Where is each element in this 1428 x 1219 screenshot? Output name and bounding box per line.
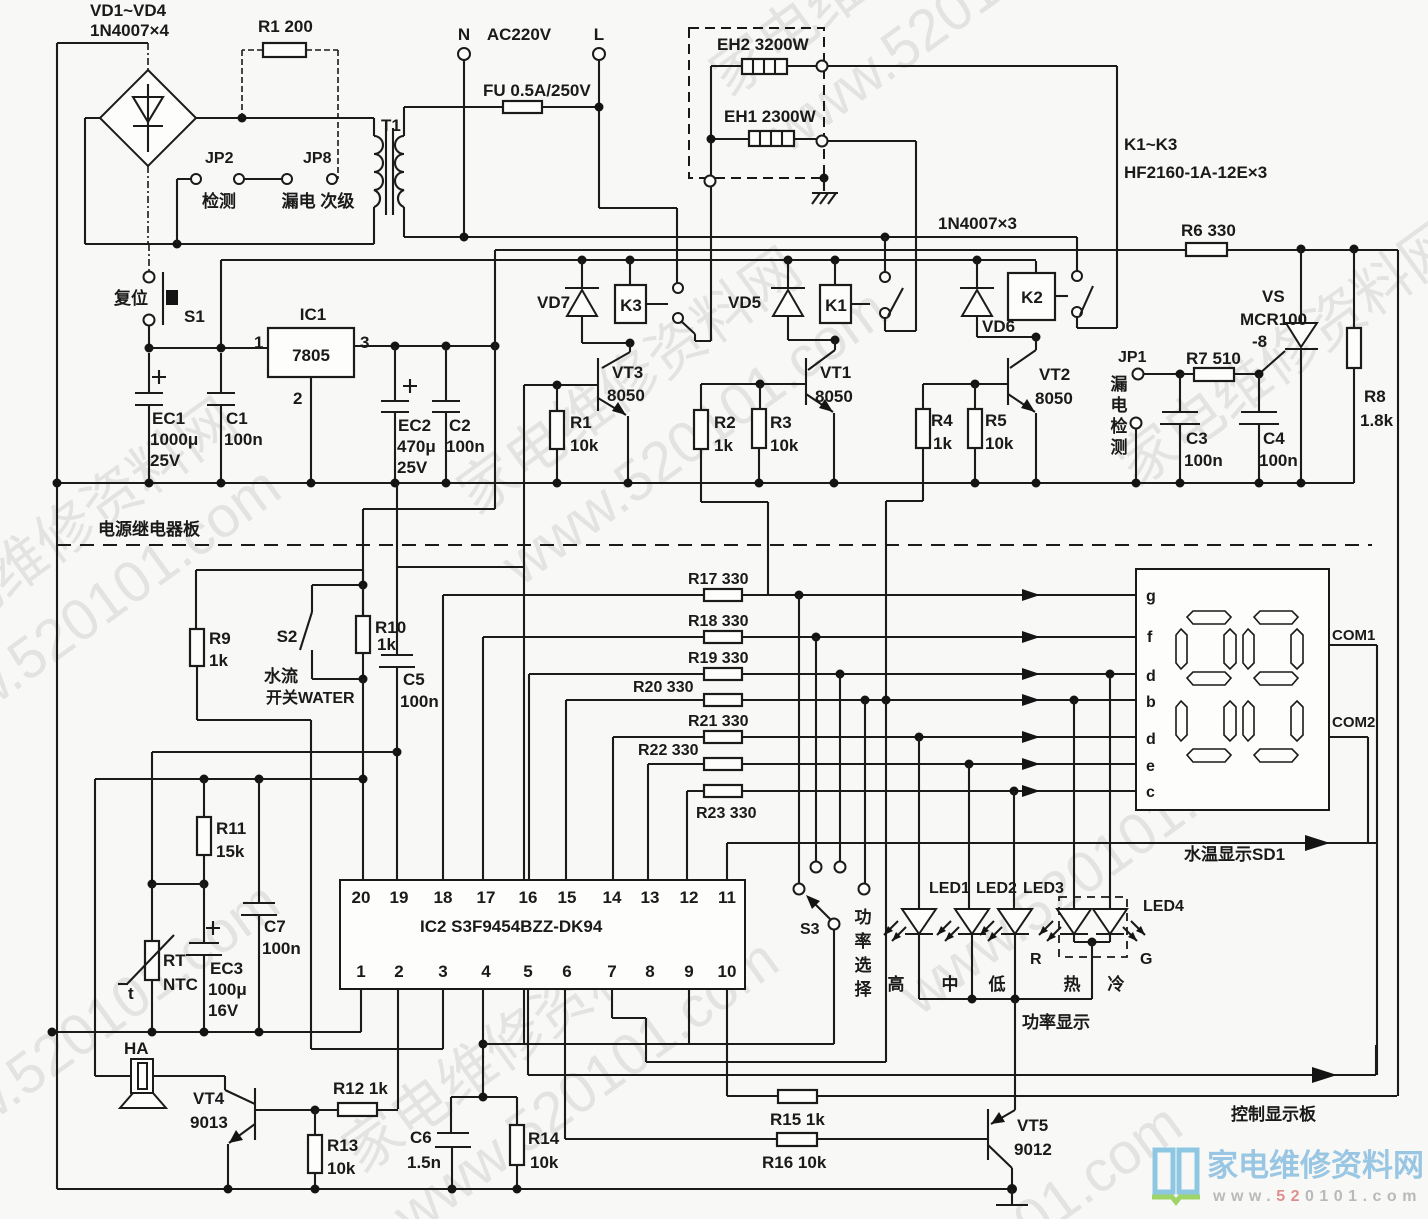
- svg-text:VD5: VD5: [728, 293, 761, 312]
- svg-text:C6: C6: [410, 1128, 432, 1147]
- node: R11 bottom / RT top junctions: [148, 880, 157, 889]
- display SD1 box: [1136, 569, 1329, 810]
- svg-text:K1: K1: [825, 296, 847, 315]
- svg-text:控制显示板: 控制显示板: [1231, 1104, 1317, 1124]
- svg-text:VD1~VD4: VD1~VD4: [90, 1, 167, 20]
- wire: pin9 to S3 select line: [688, 989, 690, 1044]
- svg-text:25V: 25V: [397, 458, 428, 477]
- transistor VT5 9012: [988, 1109, 1052, 1189]
- thyristor VS MCR100-8: [1240, 249, 1318, 483]
- svg-text:19: 19: [390, 888, 409, 907]
- svg-text:3: 3: [360, 333, 369, 352]
- svg-text:G: G: [1140, 951, 1152, 968]
- node: line B junctions right: [1297, 245, 1306, 254]
- wire: L contact rail (line B): [495, 249, 1398, 251]
- node: junction bottom wire: [173, 240, 182, 249]
- ground symbol (heater): [812, 178, 838, 204]
- svg-text:EH2 3200W: EH2 3200W: [717, 35, 810, 54]
- svg-text:电源继电器板: 电源继电器板: [98, 519, 201, 539]
- labels high mid low hot cold: [888, 974, 1125, 994]
- svg-text:MCR100: MCR100: [1240, 310, 1307, 329]
- svg-text:R15 1k: R15 1k: [770, 1110, 825, 1129]
- svg-text:C1: C1: [226, 409, 248, 428]
- wire: bottom return wire of bridge loop: [85, 243, 374, 245]
- wire: pin7/R4 column: [885, 700, 887, 1062]
- svg-text:R22 330: R22 330: [638, 742, 699, 759]
- svg-text:IC1: IC1: [300, 305, 326, 324]
- wire: drive line to R4 column: [646, 1061, 886, 1063]
- LED4 dual red/green: [1030, 897, 1184, 999]
- svg-text:择: 择: [855, 979, 873, 999]
- svg-text:R12 1k: R12 1k: [333, 1079, 388, 1098]
- svg-text:EC3: EC3: [210, 959, 243, 978]
- svg-text:漏电 次级: 漏电 次级: [282, 191, 355, 211]
- svg-text:R16 10k: R16 10k: [762, 1153, 827, 1172]
- capacitor C4 100n: [1239, 374, 1298, 483]
- svg-text:-8: -8: [1252, 332, 1267, 351]
- svg-text:9012: 9012: [1014, 1140, 1052, 1159]
- svg-text:功: 功: [855, 908, 872, 927]
- svg-text:FU 0.5A/250V: FU 0.5A/250V: [483, 81, 591, 100]
- resistor R21 330: [613, 713, 1136, 880]
- resistor R1 200: [242, 17, 338, 179]
- node: K3 coil bottom junction: [626, 339, 635, 348]
- capacitor C6 1.5n: [407, 1093, 517, 1190]
- svg-text:100μ: 100μ: [208, 980, 247, 999]
- terminal N: [458, 25, 470, 237]
- wire: +12V riser to line C: [220, 260, 222, 348]
- capacitor C7 100n: [241, 775, 301, 1033]
- svg-text:EH1 2300W: EH1 2300W: [724, 107, 817, 126]
- svg-text:R9: R9: [209, 629, 231, 648]
- arrow heads into display: [1022, 589, 1040, 797]
- svg-text:f: f: [1147, 629, 1153, 646]
- node: VT5 collector ground junction: [1007, 1184, 1017, 1194]
- svg-text:家电维修资料网: 家电维修资料网: [1207, 1148, 1424, 1183]
- pin COM1: [1329, 627, 1377, 1075]
- svg-text:1: 1: [254, 333, 263, 352]
- capacitor C2 100n: [432, 346, 485, 483]
- transistor VT3 8050: [524, 343, 645, 483]
- svg-text:10: 10: [718, 962, 737, 981]
- site logo book icon: [1152, 1150, 1200, 1202]
- resistor R10 1k: [356, 581, 406, 684]
- svg-text:功率显示: 功率显示: [1022, 1012, 1090, 1032]
- resistor R9 1k: [190, 570, 311, 1049]
- wire: S3 select line: [524, 1043, 834, 1045]
- svg-text:R11: R11: [216, 819, 246, 838]
- heater EH2 3200W: [711, 35, 1117, 328]
- svg-text:14: 14: [603, 888, 622, 907]
- resistor R18 330: [483, 613, 1136, 880]
- svg-text:www.520101.com: www.520101.com: [1212, 1188, 1422, 1205]
- svg-text:检测: 检测: [202, 191, 236, 211]
- svg-text:1k: 1k: [933, 434, 952, 453]
- 7-segment digit 2: [1243, 611, 1303, 762]
- resistor R3 10k: [752, 384, 799, 483]
- svg-text:检: 检: [1111, 416, 1128, 436]
- relay K2: [1008, 261, 1068, 320]
- svg-text:C2: C2: [449, 416, 471, 435]
- wire: pin11 line to display (SD1): [727, 843, 1377, 880]
- resistor R13 10k: [308, 1110, 358, 1189]
- svg-text:b: b: [1146, 694, 1156, 711]
- jumper JP2: [177, 150, 244, 244]
- svg-text:R3: R3: [770, 413, 792, 432]
- resistor R15 1k: [727, 1090, 1397, 1129]
- svg-text:100n: 100n: [400, 692, 439, 711]
- transistor VT1 8050: [701, 340, 853, 483]
- diode VD7: [537, 256, 630, 344]
- node: VT4 base junction: [311, 1106, 320, 1115]
- svg-text:R19 330: R19 330: [688, 650, 749, 667]
- svg-text:13: 13: [641, 888, 660, 907]
- wire: line B left riser: [363, 250, 495, 616]
- resistor R8 1.8k: [1347, 249, 1394, 483]
- resistor R17 330: [443, 571, 1136, 880]
- wire: R10 node down to line and pin20: [362, 679, 364, 880]
- svg-text:100n: 100n: [446, 437, 485, 456]
- svg-text:COM2: COM2: [1332, 714, 1375, 731]
- svg-text:R4: R4: [931, 411, 953, 430]
- svg-text:VT1: VT1: [820, 363, 851, 382]
- node: bottom rail junctions: [224, 1185, 233, 1194]
- switch contacts K2: [1072, 237, 1117, 328]
- node: K1 coil bottom junction: [831, 336, 840, 345]
- svg-text:11: 11: [718, 888, 736, 907]
- wire: N rail: [404, 236, 1077, 238]
- resistor R1 10k: [550, 385, 599, 483]
- svg-text:LED1: LED1: [929, 880, 970, 897]
- svg-text:水温显示SD1: 水温显示SD1: [1184, 844, 1285, 864]
- wire: droppers to S3 contacts: [799, 595, 865, 884]
- LED2: [937, 880, 1017, 999]
- svg-text:率: 率: [855, 931, 872, 951]
- display segment pin labels: [1146, 588, 1156, 801]
- svg-text:7: 7: [607, 962, 616, 981]
- svg-text:COM1: COM1: [1332, 627, 1375, 644]
- svg-text:K1~K3: K1~K3: [1124, 135, 1177, 154]
- node: pin20 top junction: [362, 778, 364, 780]
- wire: bottom ground rail of control board: [57, 1188, 1012, 1190]
- svg-text:C7: C7: [264, 917, 286, 936]
- svg-text:1: 1: [356, 962, 365, 981]
- resistor R23 330: [687, 785, 1136, 880]
- svg-text:10k: 10k: [327, 1159, 356, 1178]
- svg-text:1N4007×4: 1N4007×4: [90, 21, 169, 40]
- jumper JP1 leakage detect: [1111, 349, 1181, 483]
- svg-text:HF2160-1A-12E×3: HF2160-1A-12E×3: [1124, 163, 1267, 182]
- svg-text:15: 15: [558, 888, 577, 907]
- svg-text:3: 3: [438, 962, 447, 981]
- svg-text:R13: R13: [327, 1136, 358, 1155]
- svg-text:1.5n: 1.5n: [407, 1153, 441, 1172]
- svg-text:C4: C4: [1263, 429, 1285, 448]
- capacitor EC3 100u 16V: [186, 884, 247, 1032]
- wire: LED cathode rail: [919, 998, 1092, 1000]
- svg-text:L: L: [594, 25, 604, 44]
- svg-text:高: 高: [888, 974, 905, 994]
- svg-text:VD7: VD7: [537, 293, 570, 312]
- svg-text:EC1: EC1: [152, 409, 185, 428]
- svg-text:7805: 7805: [292, 346, 330, 365]
- node: junction on DC+ wire: [238, 114, 247, 123]
- heater EH1 2300W: [707, 107, 917, 331]
- heater common terminal circle: [705, 176, 716, 187]
- node: ground rail junctions: [53, 479, 1306, 488]
- svg-text:470μ: 470μ: [397, 437, 436, 456]
- wire: S1 node to IC1 input: [149, 347, 268, 349]
- svg-text:水流: 水流: [264, 666, 298, 686]
- node: VT1 base junction: [756, 380, 765, 389]
- svg-text:R23 330: R23 330: [696, 805, 757, 822]
- node: S1 bottom junction: [145, 344, 154, 353]
- wire: pin4-pin6 link: [483, 1043, 565, 1045]
- resistor R4 1k: [886, 384, 953, 700]
- svg-text:低: 低: [988, 974, 1006, 994]
- svg-text:4: 4: [481, 962, 491, 981]
- wire: pin6 column down to R16: [564, 989, 566, 1139]
- node: segment row taps: [795, 591, 1115, 796]
- svg-text:S2: S2: [277, 627, 298, 646]
- svg-text:c: c: [1146, 784, 1155, 801]
- wire: LED rail down to VT5 emitter: [1014, 999, 1016, 1110]
- diode VD5: [728, 256, 835, 341]
- wire: pin3 jog to R9 column: [311, 989, 443, 1049]
- wire: right-edge vertical from line B down to R15 line: [1397, 250, 1399, 1096]
- wire: pin4 column to C6/R14: [482, 989, 484, 1097]
- svg-text:d: d: [1146, 731, 1156, 748]
- node: VT3 base junction: [553, 381, 562, 390]
- svg-text:15k: 15k: [216, 842, 245, 861]
- switch contacts K1: [880, 237, 903, 318]
- svg-text:d: d: [1146, 668, 1156, 685]
- svg-text:N: N: [458, 25, 470, 44]
- svg-text:VT4: VT4: [193, 1089, 225, 1108]
- resistor R19 330: [529, 650, 1136, 880]
- svg-text:10k: 10k: [530, 1153, 559, 1172]
- node: VT2 base junction: [971, 380, 980, 389]
- wire: left main vertical rail: [56, 43, 58, 1189]
- svg-text:R20 330: R20 330: [633, 679, 694, 696]
- pushbutton S1 reset: [113, 272, 205, 349]
- 7-segment digit 1: [1176, 611, 1236, 762]
- relay K3: [615, 256, 668, 324]
- relay K1: [820, 256, 870, 324]
- svg-text:g: g: [1146, 588, 1156, 605]
- switch S2 water flow: [264, 585, 363, 707]
- svg-text:VT3: VT3: [612, 363, 643, 382]
- svg-text:JP1: JP1: [1118, 349, 1147, 366]
- svg-text:NTC: NTC: [163, 975, 198, 994]
- svg-text:1k: 1k: [209, 651, 228, 670]
- svg-text:1N4007×3: 1N4007×3: [938, 214, 1017, 233]
- node: 5V rail junctions: [391, 342, 400, 351]
- wire: C5 line to S3-select column: [397, 566, 524, 568]
- svg-text:S3: S3: [800, 921, 820, 938]
- wire: pin5 display common line with arrow: [528, 1045, 1376, 1075]
- node: R7 left junction: [1176, 370, 1185, 379]
- svg-text:K2: K2: [1021, 288, 1043, 307]
- capacitor C3 100n: [1160, 374, 1223, 483]
- svg-text:LED4: LED4: [1143, 898, 1184, 915]
- wire: bridge right arm to transformer: [196, 117, 374, 119]
- wire: pin7 jog to drive line: [612, 989, 646, 1062]
- svg-text:IC2 S3F9454BZZ-DK94: IC2 S3F9454BZZ-DK94: [420, 917, 603, 936]
- svg-text:漏: 漏: [1111, 375, 1128, 394]
- capacitor C1 100n: [207, 353, 263, 483]
- svg-text:K3: K3: [620, 296, 642, 315]
- svg-text:R6 330: R6 330: [1181, 221, 1236, 240]
- svg-text:冷: 冷: [1108, 974, 1125, 994]
- svg-text:开关WATER: 开关WATER: [266, 688, 355, 707]
- regulator IC1 7805: [254, 305, 495, 483]
- wire: bridge left arm to frame: [85, 118, 100, 244]
- resistor R14 10k: [510, 1097, 560, 1189]
- svg-text:17: 17: [477, 888, 496, 907]
- wire: pin1 to sensor ground: [360, 989, 362, 1032]
- node: heater ground junction: [820, 174, 829, 183]
- svg-text:R1 200: R1 200: [258, 17, 313, 36]
- svg-text:9: 9: [684, 962, 693, 981]
- svg-text:VT5: VT5: [1017, 1116, 1048, 1135]
- svg-text:热: 热: [1064, 974, 1081, 994]
- wire: top-left horizontal from left rail to bridge top: [57, 42, 148, 44]
- ground symbol (VT5): [996, 1189, 1028, 1205]
- resistor R20 330: [566, 679, 1136, 880]
- switch contacts K3: [673, 187, 711, 341]
- resistor R6 330: [1181, 221, 1236, 256]
- wire: +12V rail (line C): [221, 259, 1036, 261]
- node: K2 coil bottom junction: [1032, 333, 1041, 342]
- svg-text:AC220V: AC220V: [487, 25, 552, 44]
- svg-text:中: 中: [942, 974, 959, 994]
- capacitor C5 100n: [379, 483, 439, 880]
- svg-text:JP2: JP2: [205, 150, 234, 167]
- svg-text:25V: 25V: [150, 451, 181, 470]
- svg-text:8050: 8050: [607, 386, 645, 405]
- jumper JP8: [244, 150, 354, 211]
- svg-text:t: t: [128, 984, 134, 1003]
- wire: dash-dot bridge vertical stubs: [148, 43, 149, 272]
- wire: sensor ground rail: [52, 1031, 361, 1033]
- wire: relay board ground rail: [57, 482, 1354, 484]
- svg-text:测: 测: [1111, 437, 1128, 457]
- node: R7 right junction: [1255, 370, 1264, 379]
- svg-text:16: 16: [519, 888, 538, 907]
- resistor R2 1k: [694, 384, 768, 594]
- resistor R11 15k: [197, 775, 246, 885]
- wire: pin10 to R15: [726, 989, 728, 1096]
- svg-text:6: 6: [562, 962, 571, 981]
- svg-text:C5: C5: [403, 670, 425, 689]
- svg-text:R21 330: R21 330: [688, 713, 749, 730]
- transformer T1: [374, 107, 404, 244]
- svg-text:100n: 100n: [224, 430, 263, 449]
- switch S3 power select: [794, 862, 873, 1045]
- svg-text:8050: 8050: [1035, 389, 1073, 408]
- wire: VT3 base feed down to S3 select line: [523, 385, 525, 1044]
- wire: pin2 down to R12: [397, 989, 399, 1109]
- LED1: [884, 880, 970, 999]
- svg-text:HA: HA: [124, 1039, 149, 1058]
- svg-text:8: 8: [645, 962, 654, 981]
- svg-text:100n: 100n: [262, 939, 301, 958]
- svg-text:VT2: VT2: [1039, 365, 1070, 384]
- transistor VT2 8050: [923, 337, 1073, 483]
- svg-text:R17 330: R17 330: [688, 571, 749, 588]
- resistor R16 10k: [565, 1133, 988, 1172]
- svg-text:R5: R5: [985, 411, 1007, 430]
- fuse FU 0.5A/250V: [404, 81, 604, 113]
- svg-text:R14: R14: [528, 1129, 560, 1148]
- terminal L: [593, 25, 677, 283]
- diode VD6: [960, 256, 1036, 338]
- wire: droppers to LED anodes: [919, 674, 1110, 909]
- svg-text:S1: S1: [184, 307, 205, 326]
- board divider dashed line: [57, 544, 1372, 546]
- svg-text:1k: 1k: [714, 436, 733, 455]
- svg-text:R1: R1: [570, 413, 592, 432]
- bridge rectifier VD1~VD4: [90, 1, 196, 166]
- svg-text:R7 510: R7 510: [1186, 349, 1241, 368]
- resistor R5 10k: [968, 384, 1014, 483]
- speaker HA: [95, 1039, 225, 1108]
- svg-text:电: 电: [1111, 395, 1128, 415]
- svg-text:100n: 100n: [1184, 451, 1223, 470]
- LED3: [980, 880, 1064, 999]
- svg-text:10k: 10k: [770, 436, 799, 455]
- svg-text:100n: 100n: [1259, 451, 1298, 470]
- svg-text:16V: 16V: [208, 1001, 239, 1020]
- svg-text:R8: R8: [1364, 387, 1386, 406]
- resistor R7 510: [1180, 349, 1259, 381]
- svg-text:EC2: EC2: [398, 416, 431, 435]
- thermistor RT NTC: [118, 884, 198, 1032]
- transistor VT4 9013: [190, 1076, 315, 1189]
- svg-text:1k: 1k: [377, 635, 396, 654]
- svg-text:复位: 复位: [113, 288, 148, 308]
- svg-text:LED3: LED3: [1023, 880, 1064, 897]
- svg-text:选: 选: [855, 956, 872, 975]
- wire: sensor top line: [95, 779, 363, 1076]
- svg-text:JP8: JP8: [303, 150, 332, 167]
- wire: pin5 to display common line: [527, 989, 529, 1075]
- svg-text:5: 5: [523, 962, 532, 981]
- svg-text:10k: 10k: [985, 434, 1014, 453]
- svg-text:18: 18: [434, 888, 453, 907]
- svg-text:1.8k: 1.8k: [1360, 411, 1394, 430]
- svg-text:1000μ: 1000μ: [150, 430, 198, 449]
- svg-text:12: 12: [680, 888, 699, 907]
- svg-text:2: 2: [293, 389, 302, 408]
- wire: link C5 bottom to RT column: [152, 752, 397, 884]
- node: IC1 input junction: [217, 344, 226, 353]
- svg-text:C3: C3: [1186, 429, 1208, 448]
- capacitor EC2 470u 25V: [381, 346, 436, 483]
- svg-text:8050: 8050: [815, 387, 853, 406]
- svg-text:LED2: LED2: [976, 880, 1017, 897]
- svg-text:R: R: [1030, 951, 1042, 968]
- resistor R22 330: [638, 742, 1136, 880]
- svg-text:2: 2: [394, 962, 403, 981]
- IC2 S3F9454BZZ-DK94: [340, 880, 745, 989]
- svg-text:RT: RT: [163, 951, 186, 970]
- svg-text:20: 20: [352, 888, 371, 907]
- svg-text:9013: 9013: [190, 1113, 228, 1132]
- svg-text:e: e: [1146, 758, 1155, 775]
- svg-text:VS: VS: [1262, 287, 1285, 306]
